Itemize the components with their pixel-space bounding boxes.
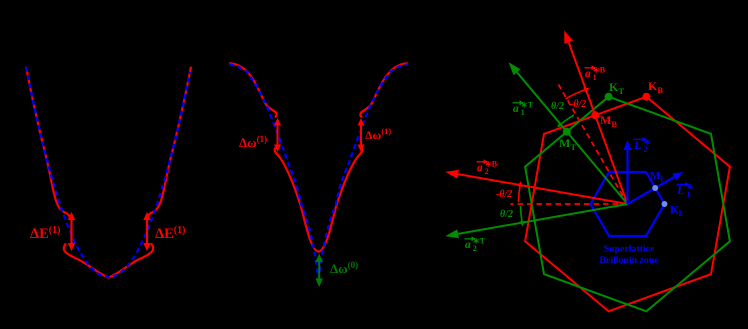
point M_T bbox=[563, 128, 571, 136]
svg-text:∗T: ∗T bbox=[473, 237, 486, 246]
svg-text:∗T: ∗T bbox=[521, 101, 534, 110]
middle panel: red branch upper-left bbox=[229, 63, 277, 117]
point K_L bbox=[662, 201, 668, 207]
angle arc theta/2 top (green) bbox=[561, 115, 574, 124]
middle panel: red branch central bbox=[275, 148, 363, 252]
left panel: red perturbed band lower branch bbox=[64, 244, 153, 278]
point K_B bbox=[642, 93, 650, 101]
arrow a2*B (red, 170deg) bbox=[458, 174, 627, 204]
arrow L2* (blue, up) bbox=[626, 150, 628, 204]
arrow a2*T (green, 190deg) bbox=[458, 204, 627, 234]
svg-text:Brillouin zone: Brillouin zone bbox=[599, 255, 659, 266]
left panel: gap arrow right bbox=[146, 218, 148, 245]
svg-text:∗: ∗ bbox=[687, 182, 694, 192]
svg-text:a: a bbox=[477, 162, 483, 174]
svg-text:∗: ∗ bbox=[644, 137, 651, 147]
svg-text:∗B: ∗B bbox=[593, 66, 606, 75]
angle arc -theta/2 left (red) bbox=[519, 187, 520, 203]
middle panel: blue unperturbed branch (dashed) bbox=[229, 64, 408, 282]
svg-text:L: L bbox=[676, 183, 684, 197]
svg-text:∗B: ∗B bbox=[485, 160, 498, 169]
left panel: red perturbed band upper-left branch bbox=[26, 67, 70, 219]
dashed reference line 120deg bbox=[559, 85, 628, 205]
top-layer Brillouin zone (green hexagon) bbox=[525, 97, 730, 312]
svg-text:L: L bbox=[633, 138, 641, 152]
left panel: gap arrow left bbox=[70, 218, 72, 245]
svg-text:θ/2: θ/2 bbox=[551, 101, 564, 112]
angle arc -theta/2 top (red) bbox=[566, 90, 585, 99]
bottom-layer Brillouin zone (red hexagon) bbox=[525, 97, 730, 312]
svg-text:-θ/2: -θ/2 bbox=[570, 99, 586, 110]
dashed reference line 180deg bbox=[511, 203, 628, 205]
svg-text:a: a bbox=[513, 103, 519, 115]
svg-text:a: a bbox=[465, 239, 471, 251]
arrow a1*T (green, 130deg) bbox=[517, 72, 628, 204]
point M_B bbox=[591, 111, 599, 119]
svg-text:a: a bbox=[585, 68, 591, 80]
middle panel: gap arrow left bbox=[277, 124, 279, 147]
point M_L bbox=[652, 185, 658, 191]
left panel: blue unperturbed band (dashed parabola) bbox=[26, 67, 190, 277]
arrow L1* (blue, 30deg) bbox=[628, 177, 675, 204]
angle arc theta/2 left (green) bbox=[521, 206, 522, 221]
middle panel: red branch upper-right bbox=[360, 63, 408, 117]
middle panel: gap arrow right bbox=[360, 124, 362, 147]
arrow a1*B (red, 110deg) bbox=[569, 42, 628, 204]
point K_T bbox=[605, 93, 613, 101]
svg-text:Superlattice: Superlattice bbox=[604, 244, 655, 255]
superlattice Brillouin zone (blue hexagon) bbox=[591, 172, 665, 236]
middle panel: green arrow Delta omega(0) bbox=[318, 260, 320, 281]
left panel: red perturbed band upper-right branch bbox=[147, 67, 191, 219]
svg-text:θ/2: θ/2 bbox=[500, 209, 513, 220]
svg-text:-θ/2: -θ/2 bbox=[496, 189, 512, 200]
